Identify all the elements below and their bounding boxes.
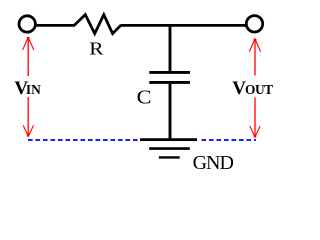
- wire: capacitor to ground: [169, 84, 172, 139]
- ground bar 3: [159, 156, 180, 158]
- svg-text:OUT: OUT: [245, 82, 273, 97]
- Vout measurement arrow (lower, pointing down): [250, 98, 260, 138]
- input terminal (open circle): [19, 16, 35, 32]
- wire: input terminal to resistor: [36, 24, 76, 27]
- ground reference dashed line (left segment): [28, 139, 139, 141]
- ground reference dashed line (right segment): [202, 139, 257, 141]
- svg-text:R: R: [89, 38, 104, 58]
- capacitor C1 bottom plate: [149, 81, 190, 84]
- Vout measurement arrow (upper, pointing up): [249, 38, 260, 75]
- wire: resistor to output terminal: [121, 24, 247, 27]
- label Vout: [232, 78, 273, 99]
- resistor R1 (zigzag): [74, 15, 121, 34]
- label Vin: [14, 78, 41, 99]
- output terminal (open circle): [246, 16, 262, 32]
- ground bar 2: [149, 147, 190, 150]
- capacitor C1 top plate: [149, 71, 190, 74]
- Vin measurement arrow (upper, pointing up): [23, 37, 34, 76]
- svg-text:C: C: [137, 87, 152, 108]
- svg-text:GND: GND: [193, 152, 234, 174]
- svg-text:IN: IN: [26, 82, 41, 97]
- Vin measurement arrow (lower, pointing down): [23, 97, 33, 137]
- ground bar 1: [140, 138, 197, 141]
- wire: node down to capacitor: [169, 25, 172, 71]
